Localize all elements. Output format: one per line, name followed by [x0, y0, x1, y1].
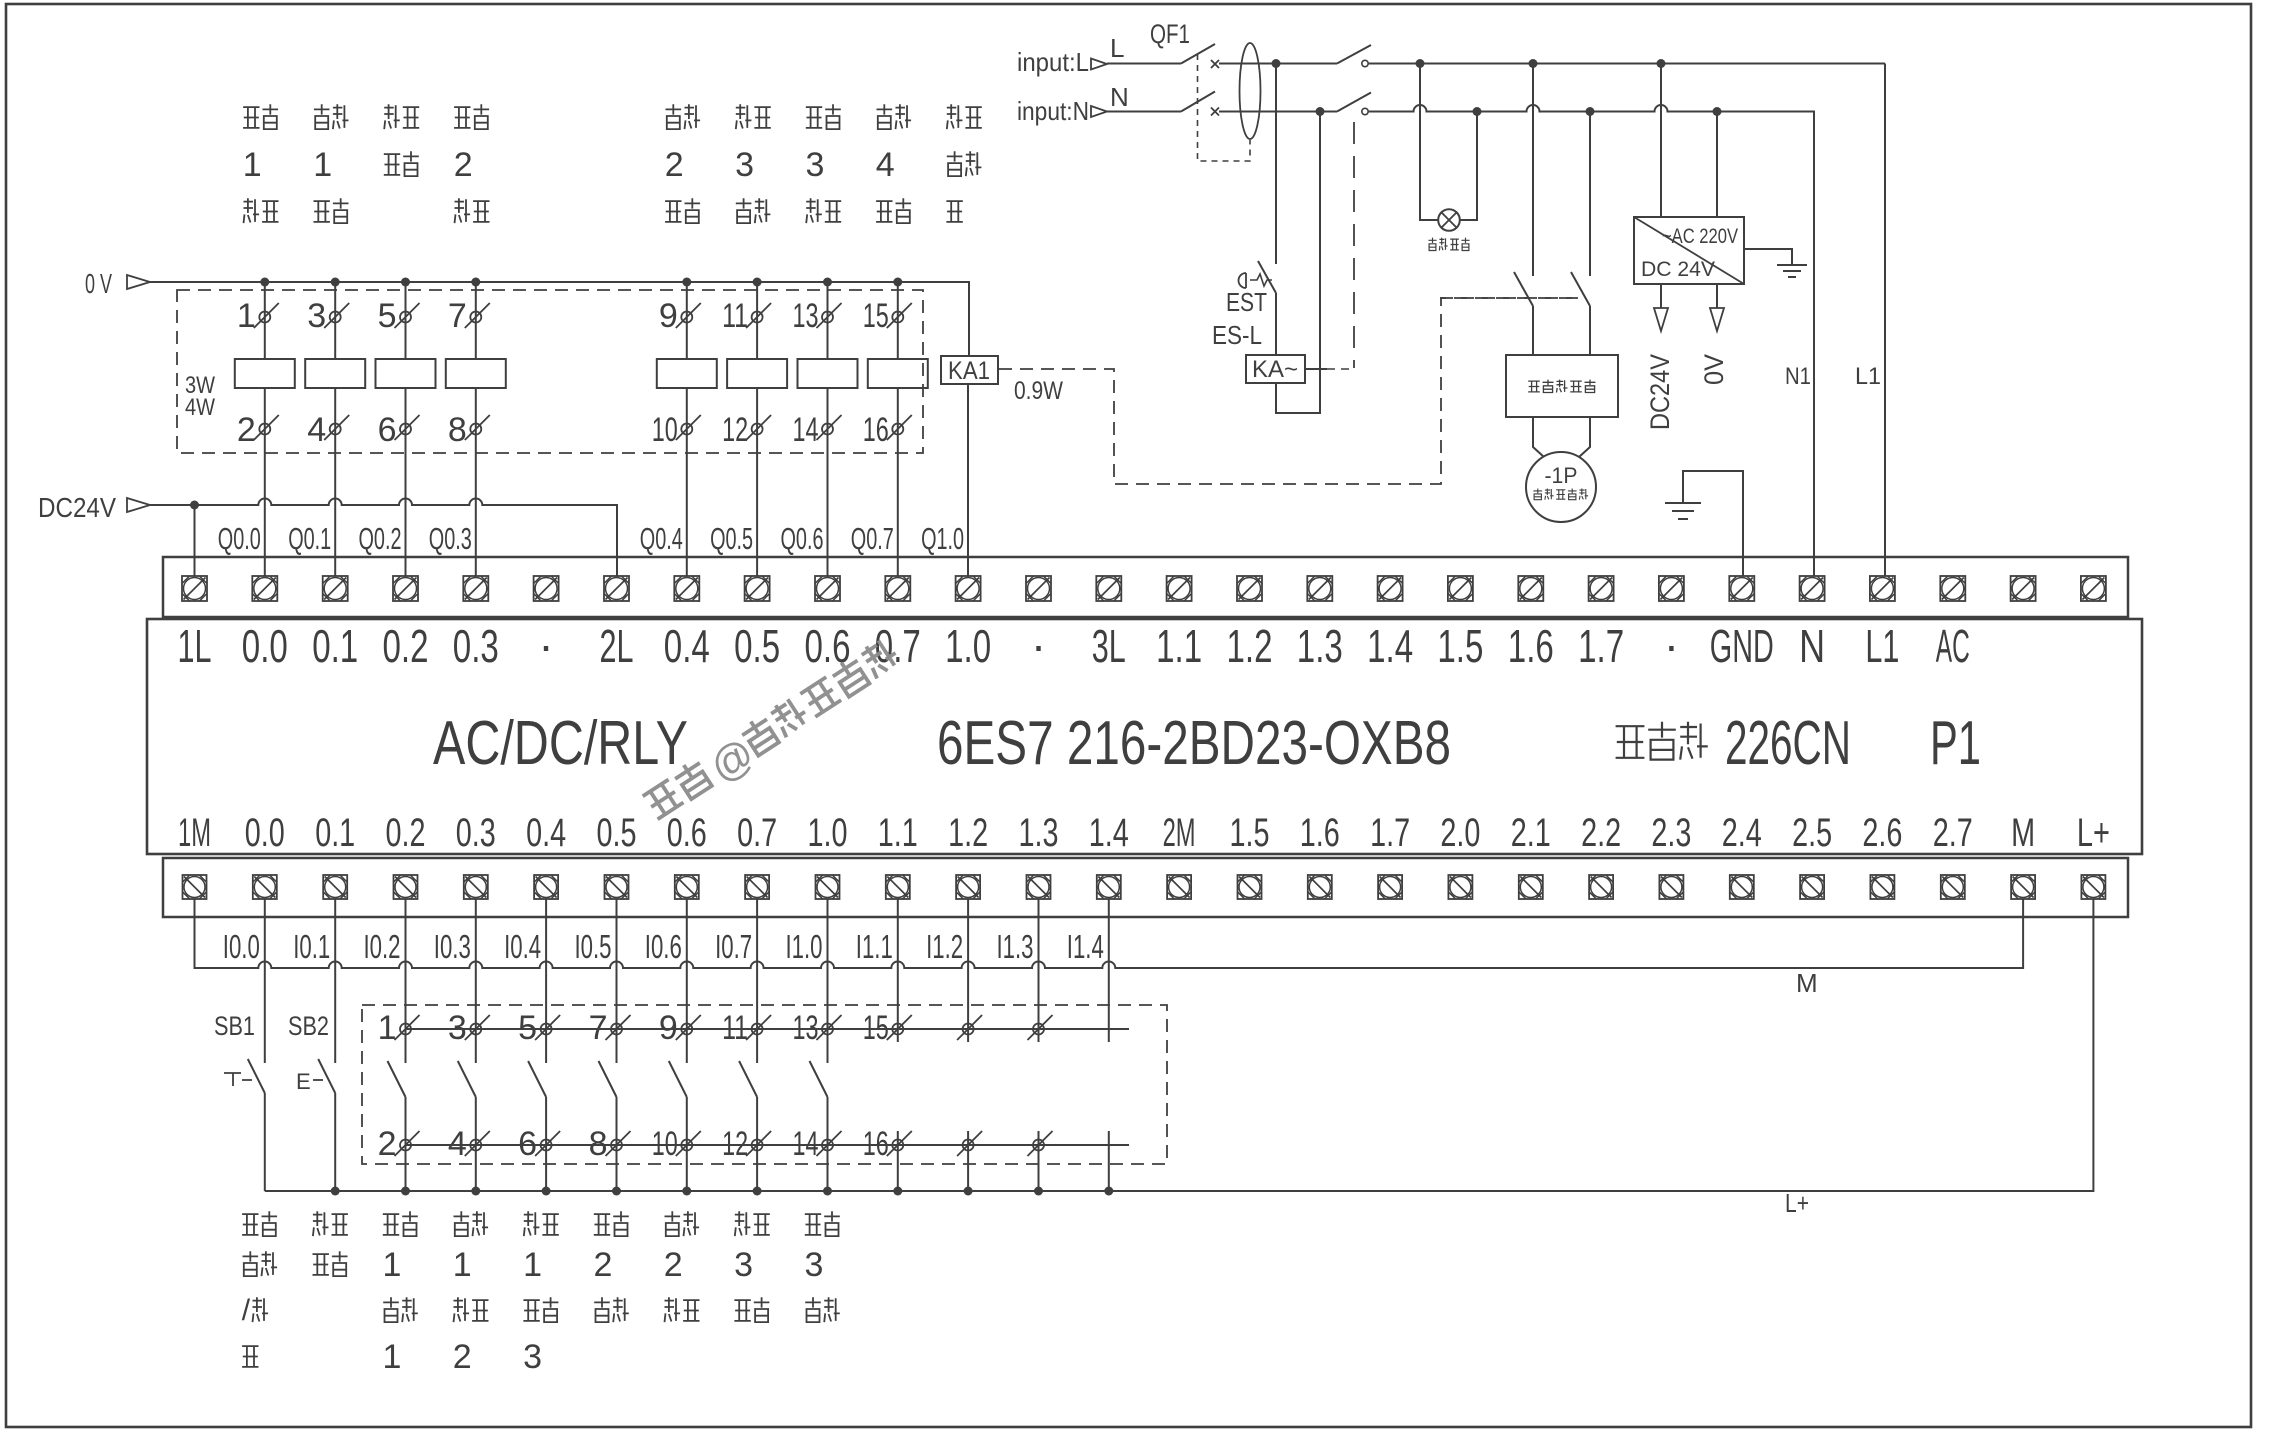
svg-text:0.4: 0.4 — [664, 620, 710, 672]
svg-text:0.5: 0.5 — [734, 620, 780, 672]
motor speed controller 电机调速器 — [1506, 355, 1618, 417]
svg-text:1.2: 1.2 — [948, 811, 988, 855]
sensor switch channel pin 13/14 — [810, 899, 842, 1191]
svg-text:2: 2 — [453, 1338, 472, 1376]
svg-text:2.2: 2.2 — [1581, 811, 1621, 855]
svg-text:1.7: 1.7 — [1578, 620, 1624, 672]
wires controller to motor — [1533, 417, 1590, 457]
svg-text:16: 16 — [863, 411, 889, 449]
svg-text:0.9W: 0.9W — [1014, 377, 1063, 405]
wire sensor row1 bus — [406, 1028, 1130, 1030]
label 系统启动/停止 (I0.0) — [242, 1211, 277, 1367]
solenoid channel 1: pin 1 top contact — [254, 282, 279, 359]
svg-text:Q0.0: Q0.0 — [218, 521, 261, 556]
svg-text:·: · — [1664, 619, 1679, 671]
sensor switch channel pin 5/6 — [528, 899, 560, 1191]
wire PSU input L — [1660, 64, 1662, 217]
svg-text:I0.5: I0.5 — [575, 928, 612, 965]
solenoid channel 5: pin 9 top contact — [676, 282, 701, 359]
relay coil KA~ — [1246, 355, 1305, 383]
wire L+ common line — [265, 899, 2094, 1191]
solenoid channel 4: pin 7 top contact — [465, 282, 490, 359]
wire KA~ to trip link — [1305, 368, 1327, 370]
svg-text:1.4: 1.4 — [1089, 811, 1129, 855]
svg-text:I1.1: I1.1 — [856, 928, 893, 965]
solenoid channel 6: pin 12 bottom contact — [746, 388, 771, 576]
svg-text:P1: P1 — [1930, 709, 1981, 778]
wire PSU input N — [1716, 112, 1718, 218]
junction dots N bus — [1316, 107, 1722, 116]
svg-text:2.6: 2.6 — [1862, 811, 1902, 855]
junction dots on 0V rail — [260, 278, 902, 287]
label 气缸2低位 (I0.6) — [664, 1211, 700, 1322]
svg-text:1: 1 — [237, 297, 256, 335]
solenoid valve coil 6 — [727, 359, 787, 388]
svg-text:5: 5 — [378, 297, 397, 335]
svg-text:10: 10 — [652, 411, 678, 449]
ground symbol earth — [1665, 503, 1701, 519]
svg-text:KA~: KA~ — [1252, 356, 1298, 383]
label 吸盘吸取 (Q0.2) — [384, 104, 400, 129]
junction dots L bus — [1272, 59, 1666, 68]
svg-text:11: 11 — [722, 297, 748, 335]
wire PSU chassis ground — [1744, 249, 1792, 264]
svg-text:M: M — [1796, 968, 1818, 998]
solenoid channel 2: pin 3 top contact — [324, 282, 349, 359]
svg-text:0.2: 0.2 — [386, 811, 426, 855]
PSU DC24V output arrow — [1654, 284, 1668, 331]
wire L bus — [1219, 64, 1885, 577]
svg-text:I1.2: I1.2 — [926, 928, 963, 965]
power supply AC220V/DC24V — [1634, 217, 1744, 284]
dashed wire KA~ trip link — [1327, 368, 1354, 370]
label 气缸3闭合 (Q0.6) — [806, 107, 822, 128]
label 气缸1位置2 (I0.3) — [453, 1211, 489, 1376]
solenoid channel 7: pin 13 top contact — [817, 282, 842, 359]
solenoid channel 6: pin 11 top contact — [746, 282, 771, 359]
svg-text:DC 24V: DC 24V — [1641, 258, 1715, 281]
svg-text:Q1.0: Q1.0 — [921, 521, 964, 556]
svg-text:0.6: 0.6 — [667, 811, 707, 855]
svg-text:1.0: 1.0 — [808, 811, 848, 855]
label 气缸3闭合 (I1.0) — [805, 1211, 840, 1322]
indicator lamp 上电指示 — [1438, 209, 1460, 231]
svg-text:0.3: 0.3 — [453, 620, 499, 672]
svg-text:AC/DC/RLY: AC/DC/RLY — [433, 709, 688, 778]
label 传送带启动 (Q1.0) — [947, 104, 963, 129]
svg-text:1: 1 — [453, 1246, 472, 1284]
wire KA1 to terminal Q1.0 — [967, 384, 969, 576]
svg-text:13: 13 — [793, 1009, 819, 1047]
isolator switch pole N — [1337, 93, 1371, 115]
svg-text:Q0.4: Q0.4 — [640, 521, 683, 556]
svg-text:7: 7 — [589, 1009, 608, 1047]
svg-text:L: L — [1110, 33, 1124, 63]
sensor spare channel at I1.3 — [1028, 899, 1053, 1191]
svg-text:14: 14 — [793, 411, 819, 449]
svg-text:N: N — [1799, 620, 1825, 672]
svg-text:I0.7: I0.7 — [715, 928, 752, 965]
net label DC24V (rotated) — [1645, 354, 1675, 430]
svg-text:·: · — [1031, 619, 1046, 671]
svg-text:ES-L: ES-L — [1212, 320, 1262, 350]
PLC 6ES7 216-2BD23-0XB8 body — [147, 619, 2142, 854]
label 气缸1退回 (Q0.0) — [243, 107, 259, 128]
svg-text:/: / — [242, 1294, 251, 1327]
wire I1.4 stub — [1108, 899, 1110, 1191]
svg-text:L1: L1 — [1865, 620, 1899, 672]
watermark 头条@控制研究控 — [640, 634, 909, 831]
svg-text:6: 6 — [378, 411, 397, 449]
svg-text:L+: L+ — [2077, 811, 2110, 855]
svg-text:2.3: 2.3 — [1651, 811, 1691, 855]
dashed wire KA1 to motor-controller interlock — [999, 298, 1578, 484]
svg-text:2.5: 2.5 — [1792, 811, 1832, 855]
svg-text:1.1: 1.1 — [878, 811, 918, 855]
wire GND terminal to earth — [1683, 471, 1743, 576]
svg-text:input:N: input:N — [1017, 96, 1089, 126]
label 气缸2向上 (Q0.4) — [666, 104, 682, 129]
svg-text:Q0.5: Q0.5 — [710, 521, 753, 556]
svg-text:I1.0: I1.0 — [786, 928, 823, 965]
solenoid channel 4: pin 8 bottom contact — [465, 388, 490, 576]
solenoid valve coil 3 — [376, 359, 436, 388]
svg-text:4: 4 — [448, 1125, 467, 1163]
svg-text:0.1: 0.1 — [315, 811, 355, 855]
solenoid valve coil 7 — [798, 359, 858, 388]
wire lamp to N — [1460, 112, 1477, 220]
svg-text:1.4: 1.4 — [1367, 620, 1413, 672]
wire 0V rail — [150, 282, 969, 356]
svg-text:2.1: 2.1 — [1511, 811, 1551, 855]
svg-text:1L: 1L — [178, 620, 212, 672]
svg-text:0.5: 0.5 — [597, 811, 637, 855]
svg-text:0.7: 0.7 — [737, 811, 777, 855]
svg-text:1: 1 — [523, 1246, 542, 1284]
svg-text:2: 2 — [594, 1246, 613, 1284]
junction dots on L+ line — [331, 1187, 1114, 1196]
solenoid channel 8: pin 15 top contact — [887, 282, 912, 359]
solenoid channel 5: pin 10 bottom contact — [676, 388, 701, 576]
solenoid channel 3: pin 6 bottom contact — [395, 388, 420, 576]
svg-text:1.3: 1.3 — [1019, 811, 1059, 855]
svg-text:0.0: 0.0 — [242, 620, 288, 672]
solenoid channel 7: pin 14 bottom contact — [817, 388, 842, 576]
svg-text:3: 3 — [734, 1246, 753, 1284]
svg-text:3: 3 — [448, 1009, 467, 1047]
svg-text:3L: 3L — [1092, 620, 1126, 672]
svg-text:Q0.2: Q0.2 — [359, 521, 402, 556]
input L connector triangle — [1091, 59, 1107, 70]
svg-text:SB1: SB1 — [214, 1011, 255, 1041]
svg-text:13: 13 — [793, 297, 819, 335]
svg-text:226CN: 226CN — [1725, 709, 1851, 778]
ground symbol PSU — [1777, 265, 1807, 277]
svg-text:2.7: 2.7 — [1933, 811, 1973, 855]
emergency stop switch EST — [1239, 64, 1276, 294]
svg-text:I0.6: I0.6 — [645, 928, 682, 965]
wire M return line 1M to M — [195, 899, 2024, 968]
svg-text:1.1: 1.1 — [1156, 620, 1202, 672]
PLC brand 西门子226CN — [1616, 709, 1851, 778]
sensor switch channel pin 9/10 — [669, 899, 701, 1191]
svg-text:12: 12 — [722, 411, 748, 449]
svg-text:0.4: 0.4 — [526, 811, 566, 855]
svg-text:QF1: QF1 — [1150, 19, 1190, 49]
wire motor branch N — [1589, 112, 1591, 277]
svg-text:I0.3: I0.3 — [434, 928, 471, 965]
svg-text:I0.2: I0.2 — [364, 928, 401, 965]
svg-text:1.6: 1.6 — [1508, 620, 1554, 672]
svg-text:5: 5 — [518, 1009, 537, 1047]
svg-text:KA1: KA1 — [948, 357, 990, 385]
motor -1P 传送带电机 — [1526, 452, 1596, 522]
svg-text:12: 12 — [722, 1125, 748, 1163]
isolator linkage long-dash — [1353, 122, 1355, 368]
svg-text:SB2: SB2 — [288, 1011, 329, 1041]
label 气缸3张开 (I0.7) — [734, 1211, 770, 1322]
svg-text:2.4: 2.4 — [1722, 811, 1762, 855]
label 气缸2高位 (I0.5) — [594, 1211, 629, 1322]
svg-text:0V: 0V — [1699, 354, 1729, 385]
current transformer ellipse — [1240, 43, 1261, 139]
svg-text:1: 1 — [378, 1009, 397, 1047]
svg-text:I1.4: I1.4 — [1067, 928, 1104, 965]
svg-text:3: 3 — [805, 1246, 824, 1284]
svg-text:input:L: input:L — [1017, 47, 1089, 77]
svg-text:1.5: 1.5 — [1230, 811, 1270, 855]
svg-text:3: 3 — [735, 146, 754, 184]
svg-text:1: 1 — [383, 1338, 402, 1376]
svg-text:Q0.7: Q0.7 — [851, 521, 894, 556]
svg-text:2: 2 — [378, 1125, 397, 1163]
solenoid channel 1: pin 2 bottom contact — [254, 388, 279, 576]
sensor switch channel pin 7/8 — [599, 899, 631, 1191]
svg-text:8: 8 — [448, 411, 467, 449]
junction dot DC24V to 1L — [190, 501, 199, 510]
svg-text:DC24V: DC24V — [38, 492, 116, 523]
svg-text:1: 1 — [383, 1246, 402, 1284]
wire EST switch to KA~ — [1275, 293, 1277, 355]
svg-text:0.2: 0.2 — [383, 620, 429, 672]
svg-text:E: E — [296, 1069, 311, 1094]
label 上电指示 — [1428, 238, 1436, 251]
svg-text:9: 9 — [659, 297, 678, 335]
isolator switch pole L — [1337, 45, 1371, 67]
svg-text:L1: L1 — [1855, 363, 1881, 390]
svg-text:3: 3 — [307, 297, 326, 335]
relay coil KA1 — [941, 356, 998, 384]
svg-text:N1: N1 — [1785, 363, 1811, 390]
svg-text:6ES7 216-2BD23-OXB8: 6ES7 216-2BD23-OXB8 — [937, 709, 1451, 778]
svg-text:4: 4 — [307, 411, 326, 449]
svg-text:I0.1: I0.1 — [293, 928, 330, 965]
input N connector triangle — [1091, 106, 1107, 117]
svg-text:4W: 4W — [185, 394, 215, 421]
svg-text:0 V: 0 V — [85, 268, 112, 299]
solenoid valve coil 5 — [657, 359, 717, 388]
svg-text:1.0: 1.0 — [945, 620, 991, 672]
svg-text:DC24V: DC24V — [1645, 354, 1675, 430]
node 0V connector triangle — [127, 275, 150, 289]
node DC24V connector triangle — [127, 498, 150, 512]
breaker QF1 pole N — [1107, 92, 1219, 116]
solenoid channel 2: pin 4 bottom contact — [324, 388, 349, 576]
pushbutton SB1 (system start/stop) — [224, 899, 265, 1191]
solenoid channel 8: pin 16 bottom contact — [887, 388, 912, 576]
svg-text:8: 8 — [589, 1125, 608, 1163]
PSU 0V output arrow — [1710, 284, 1724, 331]
svg-text:Q0.3: Q0.3 — [429, 521, 472, 556]
label 气缸4动作 (Q0.7) — [877, 104, 893, 129]
svg-text:I1.3: I1.3 — [997, 928, 1034, 965]
sensor spare channel at I1.2 — [957, 899, 982, 1191]
sensor switch channel pin 3/4 — [458, 899, 490, 1191]
svg-text:2: 2 — [665, 146, 684, 184]
PLC top pin-name row — [178, 619, 1970, 672]
svg-text:4: 4 — [876, 146, 895, 184]
PLC bottom terminal strip — [163, 858, 2128, 917]
label 气缸2向下 (Q0.3) — [454, 107, 470, 128]
svg-text:AC: AC — [1936, 620, 1970, 672]
PLC top terminal strip — [163, 557, 2128, 617]
svg-text:Q0.6: Q0.6 — [781, 521, 824, 556]
dashed enclosure output solenoid group — [177, 290, 923, 453]
PLC bottom terminal screws — [183, 875, 2106, 899]
svg-text:1.3: 1.3 — [1297, 620, 1343, 672]
solenoid valve coil 2 — [305, 359, 365, 388]
svg-text:0.1: 0.1 — [312, 620, 358, 672]
svg-text:1.5: 1.5 — [1437, 620, 1483, 672]
sensor switch channel pin 11/12 — [739, 899, 771, 1191]
label 自动运行 (I0.1) — [313, 1211, 348, 1276]
svg-text:0.3: 0.3 — [456, 811, 496, 855]
solenoid channel 3: pin 5 top contact — [395, 282, 420, 359]
svg-text:9: 9 — [659, 1009, 678, 1047]
svg-text:0.0: 0.0 — [245, 811, 285, 855]
svg-text:2: 2 — [664, 1246, 683, 1284]
svg-text:1: 1 — [313, 146, 332, 184]
svg-text:14: 14 — [793, 1125, 819, 1163]
svg-text:N: N — [1110, 82, 1129, 112]
PLC bottom pin-name row — [178, 811, 2110, 855]
svg-text:2M: 2M — [1163, 811, 1196, 855]
svg-text:2L: 2L — [600, 620, 634, 672]
label 气缸1伸出 (Q0.1) — [314, 104, 330, 129]
PLC top terminal screws — [182, 576, 2106, 601]
label 气缸3张开 (Q0.5) — [736, 104, 752, 129]
svg-text:I0.4: I0.4 — [504, 928, 541, 965]
breaker QF1 mechanical linkage dashes — [1198, 54, 1251, 161]
label 气缸1位置3 (I0.4) — [523, 1211, 559, 1376]
dashed enclosure sensor connector box — [362, 1005, 1167, 1164]
svg-text:1.6: 1.6 — [1300, 811, 1340, 855]
wire DC24V rail to 2L — [150, 499, 617, 576]
svg-text:2: 2 — [454, 146, 473, 184]
dashed interlock to motor switches — [1440, 297, 1578, 299]
svg-text:GND: GND — [1710, 620, 1774, 672]
svg-text:EST: EST — [1226, 287, 1267, 317]
svg-text:Q0.1: Q0.1 — [288, 521, 331, 556]
svg-text:1.2: 1.2 — [1227, 620, 1273, 672]
wire KA~ return loop to N — [1276, 112, 1320, 413]
svg-text:I0.0: I0.0 — [223, 928, 260, 965]
svg-text:11: 11 — [722, 1009, 748, 1047]
svg-text:3: 3 — [806, 146, 825, 184]
breaker QF1 pole L — [1107, 44, 1219, 68]
svg-text:L+: L+ — [1785, 1188, 1809, 1218]
svg-text:2: 2 — [237, 411, 256, 449]
svg-text:6: 6 — [518, 1125, 537, 1163]
pushbutton SB2 (auto run) — [296, 899, 335, 1191]
wire DC24V branch to terminal 1L — [194, 505, 196, 576]
sensor switch channel pin 1/2 — [388, 899, 420, 1191]
net label 0V (rotated) — [1699, 354, 1729, 385]
svg-text:1: 1 — [243, 146, 262, 184]
svg-text:1M: 1M — [178, 811, 211, 855]
svg-text:2.0: 2.0 — [1440, 811, 1480, 855]
wire motor branch L — [1532, 64, 1534, 276]
label 气缸1位置1 (I0.2) — [383, 1211, 418, 1376]
solenoid valve coil 1 — [235, 359, 295, 388]
svg-text:15: 15 — [863, 297, 889, 335]
svg-text:16: 16 — [863, 1125, 889, 1163]
svg-text:~AC 220V: ~AC 220V — [1662, 225, 1738, 248]
svg-text:3: 3 — [523, 1338, 542, 1376]
svg-text:·: · — [538, 619, 553, 671]
wire N bus — [1219, 105, 1814, 576]
svg-text:1.7: 1.7 — [1370, 811, 1410, 855]
svg-text:10: 10 — [652, 1125, 678, 1163]
svg-text:-1P: -1P — [1545, 463, 1578, 488]
solenoid valve coil 8 — [868, 359, 928, 388]
switch motor pole N — [1571, 272, 1590, 355]
sensor spare channel at I1.1 — [887, 899, 912, 1191]
switch motor pole L — [1514, 272, 1533, 355]
wire sensor row2 bus — [406, 1144, 1130, 1146]
svg-text:M: M — [2011, 811, 2035, 855]
svg-text:15: 15 — [863, 1009, 889, 1047]
solenoid valve coil 4 — [446, 359, 506, 388]
svg-text:7: 7 — [448, 297, 467, 335]
wire lamp branch from L — [1420, 64, 1438, 220]
